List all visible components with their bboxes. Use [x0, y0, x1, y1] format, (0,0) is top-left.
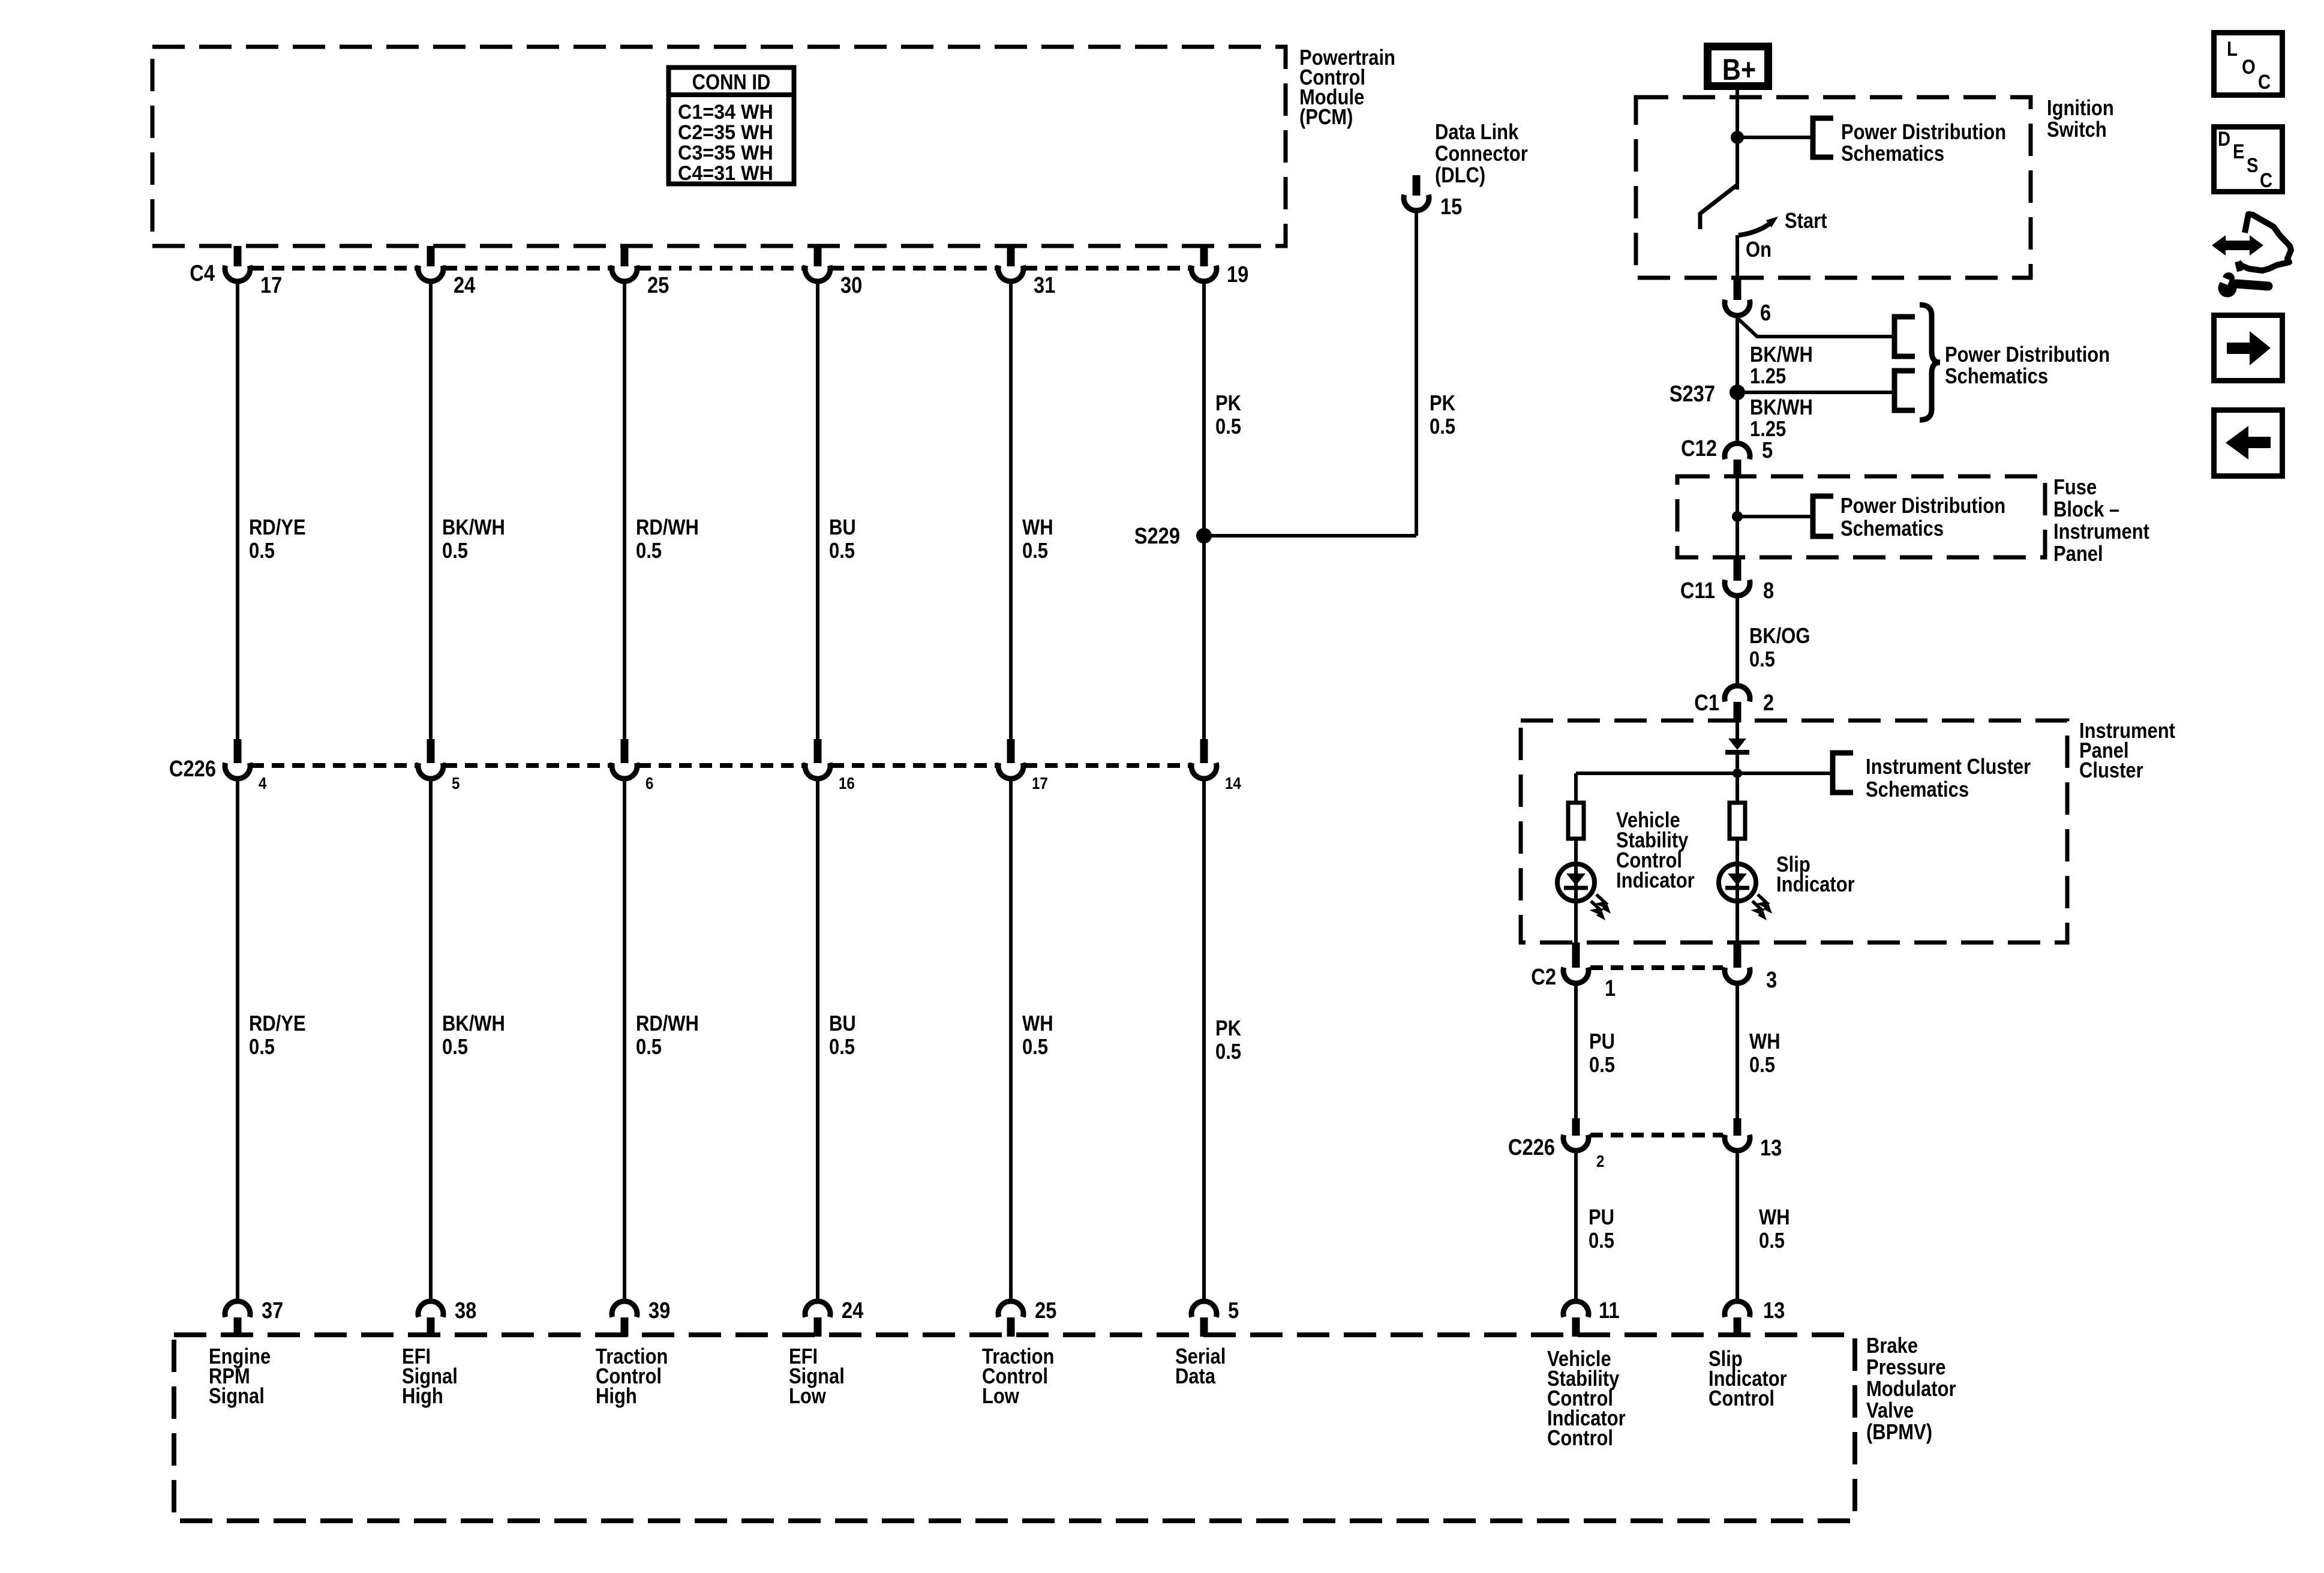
- reference bracket power distribution 2: [1894, 371, 1915, 410]
- svg-text:(DLC): (DLC): [1435, 164, 1485, 188]
- svg-text:24: 24: [842, 1298, 864, 1323]
- C4 pin 30 stub: [814, 246, 822, 266]
- C11 pin 8 stub: [1734, 557, 1742, 581]
- wire B+ to junction: [1736, 90, 1739, 137]
- C226 connector dotted line: [638, 763, 804, 768]
- svg-text:Low: Low: [982, 1385, 1020, 1409]
- C4 connector dotted line: [1025, 266, 1190, 271]
- icon LOC box: [2214, 33, 2283, 95]
- junction fuse block: [1732, 511, 1743, 522]
- C226 connector arc pin 4: [225, 763, 250, 779]
- Start position arc arrow: [1739, 221, 1772, 235]
- C226 connector arc pin 16: [805, 763, 830, 779]
- svg-text:Signal: Signal: [209, 1385, 265, 1409]
- BPMV pin 5 stub: [1200, 1317, 1208, 1337]
- icon diagnostic (arrows and wrench): [2212, 214, 2291, 298]
- svg-text:13: 13: [1763, 1298, 1785, 1323]
- icon back arrow box: [2214, 410, 2283, 476]
- Fuse Block - Instrument Panel box: [1677, 476, 2045, 557]
- C4 pin 31 stub: [1007, 246, 1015, 266]
- svg-text:D: D: [2218, 127, 2230, 151]
- svg-text:0.5: 0.5: [1589, 1053, 1615, 1077]
- BPMV pin 13 stub: [1734, 1317, 1742, 1337]
- connector C11 arc pin 8: [1725, 580, 1750, 596]
- svg-text:Schematics: Schematics: [1841, 142, 1944, 166]
- ignition switch blade: [1700, 185, 1737, 214]
- svg-text:Fuse: Fuse: [2053, 476, 2097, 500]
- BPMV connector arc pin 39: [612, 1301, 637, 1317]
- svg-text:PU: PU: [1589, 1030, 1615, 1054]
- svg-text:25: 25: [1035, 1298, 1056, 1323]
- C226 pin 17 stub: [1007, 739, 1015, 763]
- svg-text:Valve: Valve: [1866, 1399, 1914, 1423]
- C226 pin 6 stub: [621, 739, 629, 763]
- C4 connector dotted line: [445, 266, 611, 271]
- junction cluster: [1733, 769, 1742, 778]
- reference bracket power distribution (ignition): [1813, 118, 1833, 157]
- svg-text:Schematics: Schematics: [1840, 517, 1944, 541]
- svg-text:0.5: 0.5: [636, 539, 662, 563]
- svg-text:RD/WH: RD/WH: [636, 1012, 699, 1036]
- svg-text:0.5: 0.5: [1430, 415, 1455, 439]
- wire slip LED to cluster edge: [1736, 901, 1739, 942]
- svg-text:Block –: Block –: [2053, 498, 2119, 522]
- C4 connector arc pin 19: [1191, 266, 1217, 281]
- svg-text:S: S: [2247, 154, 2258, 177]
- BPMV pin 37 stub: [234, 1317, 242, 1337]
- reference bracket instrument cluster: [1833, 753, 1853, 792]
- wire PK 0.5 upper segment: [1202, 284, 1206, 536]
- svg-text:Cluster: Cluster: [2079, 759, 2143, 783]
- wire to slip resistor: [1736, 773, 1739, 801]
- svg-text:PK: PK: [1215, 1017, 1241, 1041]
- svg-text:Power Distribution: Power Distribution: [1945, 343, 2110, 367]
- svg-text:0.5: 0.5: [1749, 1053, 1775, 1077]
- wire WH 0.5 upper: [1736, 986, 1739, 1118]
- svg-text:RD/WH: RD/WH: [636, 516, 699, 540]
- C226 pin 13 stub: [1734, 1118, 1742, 1136]
- DLC connector arc pin 15: [1404, 195, 1429, 211]
- svg-text:RD/YE: RD/YE: [249, 516, 306, 540]
- svg-text:WH: WH: [1759, 1206, 1790, 1230]
- svg-text:Switch: Switch: [2047, 118, 2107, 142]
- connector C2 arc pin 3: [1725, 968, 1750, 983]
- C4 connector dotted line: [638, 266, 804, 271]
- junction ignition feed: [1731, 131, 1744, 144]
- svg-text:Power Distribution: Power Distribution: [1841, 121, 2006, 145]
- wire WH 0.5 lower segment: [1009, 781, 1013, 1299]
- C226 pin 4 stub: [234, 739, 242, 763]
- Instrument Panel Cluster box: [1521, 721, 2067, 942]
- svg-text:0.5: 0.5: [1759, 1229, 1785, 1253]
- svg-text:High: High: [596, 1385, 637, 1409]
- svg-text:31: 31: [1034, 272, 1055, 298]
- wire diode to junction: [1736, 750, 1739, 773]
- svg-text:(PCM): (PCM): [1299, 106, 1353, 130]
- svg-text:5: 5: [1762, 437, 1773, 463]
- wire branch to power distribution: [1737, 136, 1813, 139]
- svg-text:13: 13: [1760, 1135, 1782, 1161]
- svg-text:15: 15: [1440, 194, 1462, 220]
- wire BK/OG 0.5: [1736, 598, 1739, 683]
- C4 connector arc pin 24: [418, 266, 443, 281]
- brace power distribution schematics: [1920, 305, 1940, 420]
- splice S229: [1196, 528, 1212, 544]
- svg-text:C: C: [2258, 70, 2271, 94]
- svg-text:O: O: [2242, 55, 2256, 79]
- C226 connector arc pin 17: [998, 763, 1023, 779]
- wire RD/YE 0.5 lower segment: [236, 781, 239, 1299]
- wire PK 0.5 below S229: [1202, 536, 1206, 739]
- C4 connector arc pin 25: [612, 266, 637, 281]
- BPMV connector arc pin 24: [805, 1301, 830, 1317]
- svg-text:WH: WH: [1749, 1030, 1780, 1054]
- svg-text:BU: BU: [829, 516, 856, 540]
- svg-text:CONN ID: CONN ID: [692, 71, 771, 95]
- svg-text:4: 4: [259, 773, 267, 792]
- svg-text:BU: BU: [829, 1012, 856, 1036]
- svg-text:Control: Control: [1547, 1427, 1613, 1451]
- svg-text:L: L: [2227, 37, 2238, 61]
- wire BK/WH 1.25 upper: [1736, 318, 1739, 392]
- svg-text:39: 39: [648, 1298, 670, 1323]
- svg-text:25: 25: [647, 272, 669, 298]
- svg-text:Schematics: Schematics: [1866, 778, 1969, 802]
- svg-text:On: On: [1746, 238, 1771, 262]
- svg-text:0.5: 0.5: [249, 1035, 275, 1059]
- wire junction to switch pivot: [1736, 137, 1739, 190]
- svg-text:PK: PK: [1430, 392, 1455, 416]
- svg-text:Instrument: Instrument: [2053, 520, 2149, 544]
- svg-text:BK/WH: BK/WH: [442, 516, 505, 540]
- BPMV pin 25 stub: [1007, 1317, 1015, 1337]
- C226 pin 14 stub: [1200, 739, 1208, 763]
- svg-text:Instrument Cluster: Instrument Cluster: [1866, 755, 2031, 779]
- C4 pin 19 stub: [1200, 246, 1208, 266]
- connector C2 arc pin 1: [1563, 968, 1589, 983]
- diode cluster feed: [1728, 739, 1746, 750]
- C2 pin 1 stub: [1572, 942, 1580, 968]
- BPMV connector arc pin 5: [1191, 1301, 1217, 1317]
- svg-text:BK/WH: BK/WH: [1750, 343, 1813, 367]
- svg-text:E: E: [2233, 140, 2244, 163]
- svg-text:5: 5: [452, 773, 460, 792]
- C4 connector arc pin 31: [998, 266, 1023, 281]
- wire branch fuse block: [1737, 515, 1813, 518]
- svg-text:2: 2: [1596, 1151, 1604, 1170]
- C4 connector dotted line: [831, 266, 997, 271]
- BPMV pin 11 stub: [1572, 1317, 1580, 1337]
- svg-text:C4: C4: [190, 260, 215, 286]
- svg-text:C12: C12: [1681, 436, 1717, 461]
- svg-text:C1=34 WH: C1=34 WH: [678, 101, 773, 124]
- svg-text:0.5: 0.5: [1022, 1035, 1048, 1059]
- svg-text:30: 30: [840, 272, 862, 298]
- svg-text:Data Link: Data Link: [1435, 121, 1519, 145]
- reference bracket power distribution (fuse): [1813, 496, 1833, 536]
- svg-text:C2: C2: [1531, 964, 1556, 990]
- svg-text:Ignition: Ignition: [2047, 97, 2114, 121]
- svg-text:0.5: 0.5: [1215, 415, 1241, 439]
- ignition pin 6 stub: [1734, 278, 1742, 300]
- svg-text:C3=35 WH: C3=35 WH: [678, 142, 773, 164]
- svg-text:C2=35 WH: C2=35 WH: [678, 121, 773, 144]
- svg-text:Connector: Connector: [1435, 142, 1528, 166]
- svg-text:0.5: 0.5: [249, 539, 275, 563]
- C226 pin 16 stub: [814, 739, 822, 763]
- wire VSC LED to cluster edge: [1574, 901, 1578, 942]
- C226 connector arc pin 14: [1191, 763, 1217, 779]
- C4 connector arc pin 17: [225, 266, 250, 281]
- svg-text:Indicator: Indicator: [1616, 869, 1695, 893]
- svg-text:PK: PK: [1215, 392, 1241, 416]
- svg-text:C: C: [2260, 169, 2272, 192]
- svg-text:C226: C226: [169, 756, 216, 782]
- wire diagonal branch from pin 6: [1737, 318, 1893, 337]
- CONN ID table: [669, 68, 794, 184]
- LED Vehicle Stability Control Indicator: [1557, 864, 1595, 901]
- svg-text:6: 6: [1760, 300, 1771, 326]
- wire PK 0.5 lower segment: [1202, 781, 1206, 1299]
- Ignition Switch box: [1636, 97, 2031, 278]
- svg-text:C1: C1: [1694, 690, 1719, 716]
- B+ battery feed box: [1708, 47, 1768, 86]
- svg-text:RD/YE: RD/YE: [249, 1012, 306, 1036]
- svg-text:Panel: Panel: [2053, 542, 2103, 566]
- svg-text:C11: C11: [1680, 578, 1715, 604]
- svg-text:Low: Low: [789, 1385, 827, 1409]
- C4 connector arc pin 30: [805, 266, 830, 281]
- svg-text:17: 17: [1032, 773, 1048, 792]
- svg-text:0.5: 0.5: [1215, 1040, 1241, 1064]
- svg-text:6: 6: [645, 773, 653, 792]
- icon DESC box: [2214, 127, 2283, 192]
- svg-text:Start: Start: [1785, 209, 1827, 233]
- BPMV connector arc pin 25: [998, 1301, 1023, 1317]
- resistor Slip Indicator: [1730, 803, 1745, 839]
- svg-text:3: 3: [1766, 967, 1777, 993]
- wire WH 0.5 upper segment: [1009, 284, 1013, 739]
- C1 pin 2 stub: [1734, 702, 1742, 722]
- svg-text:17: 17: [260, 272, 282, 298]
- BPMV box (Brake Pressure Modulator Valve): [174, 1335, 1855, 1521]
- svg-text:0.5: 0.5: [1749, 648, 1775, 672]
- svg-text:0.5: 0.5: [442, 539, 468, 563]
- wire RD/WH 0.5 lower segment: [623, 781, 626, 1299]
- svg-text:(BPMV): (BPMV): [1866, 1421, 1932, 1445]
- svg-text:37: 37: [262, 1298, 283, 1323]
- wire BU 0.5 upper segment: [816, 284, 819, 739]
- svg-text:WH: WH: [1022, 1012, 1053, 1036]
- BPMV connector arc pin 11: [1563, 1301, 1589, 1317]
- svg-text:0.5: 0.5: [829, 1035, 855, 1059]
- wire BK/WH 0.5 upper segment: [429, 284, 433, 739]
- svg-text:Pressure: Pressure: [1866, 1356, 1945, 1380]
- svg-text:0.5: 0.5: [1022, 539, 1048, 563]
- wire cluster horizontal: [1576, 772, 1833, 775]
- svg-text:5: 5: [1228, 1298, 1239, 1323]
- connector C12 arc pin 5: [1725, 443, 1750, 459]
- C2 pin 3 stub: [1734, 942, 1742, 968]
- svg-text:Data: Data: [1175, 1365, 1215, 1389]
- svg-text:Indicator: Indicator: [1776, 873, 1855, 897]
- svg-text:0.5: 0.5: [829, 539, 855, 563]
- wire S229 to DLC horizontal: [1204, 534, 1416, 538]
- BPMV connector arc pin 38: [418, 1301, 443, 1317]
- wire On terminal: [1736, 235, 1739, 278]
- wire inside fuse block: [1736, 476, 1739, 557]
- icon forward arrow box: [2214, 316, 2283, 381]
- connector C226 arc pin 13: [1725, 1135, 1750, 1151]
- svg-text:16: 16: [839, 773, 855, 792]
- C2 connector dotted line: [1590, 965, 1723, 970]
- wire resistor to slip LED: [1736, 840, 1739, 864]
- svg-text:BK/WH: BK/WH: [1750, 396, 1813, 420]
- svg-text:24: 24: [454, 272, 476, 298]
- reference bracket power distribution 1: [1894, 317, 1915, 356]
- BPMV pin 24 stub: [814, 1317, 822, 1337]
- svg-text:BK/WH: BK/WH: [442, 1012, 505, 1036]
- svg-text:Schematics: Schematics: [1945, 365, 2048, 389]
- svg-text:S229: S229: [1134, 523, 1180, 549]
- svg-text:C4=31 WH: C4=31 WH: [678, 162, 773, 185]
- C226 connector arc pin 5: [418, 763, 443, 779]
- BPMV pin 39 stub: [621, 1317, 629, 1337]
- C4 pin 17 stub: [234, 246, 242, 266]
- wire PK 0.5 DLC drop: [1415, 213, 1418, 536]
- wire BK/WH 0.5 lower segment: [429, 781, 433, 1299]
- connector C1 arc pin 2: [1725, 686, 1750, 701]
- svg-text:BK/OG: BK/OG: [1749, 625, 1810, 649]
- C226 connector dotted line: [831, 763, 997, 768]
- svg-text:Modulator: Modulator: [1866, 1377, 1956, 1401]
- wire WH 0.5 lower: [1736, 1153, 1739, 1299]
- C226 right dotted line: [1590, 1133, 1723, 1137]
- C12 pin 5 stub: [1734, 460, 1742, 476]
- BPMV connector arc pin 37: [225, 1301, 250, 1317]
- svg-text:High: High: [402, 1385, 443, 1409]
- svg-text:Brake: Brake: [1866, 1334, 1918, 1358]
- splice S237: [1730, 385, 1745, 400]
- LED Slip Indicator: [1719, 864, 1756, 901]
- svg-text:C226: C226: [1508, 1134, 1555, 1160]
- wire RD/WH 0.5 upper segment: [623, 284, 626, 739]
- C226 connector dotted line: [445, 763, 611, 768]
- C226 pin 2 stub: [1572, 1118, 1580, 1136]
- wire RD/YE 0.5 upper segment: [236, 284, 239, 739]
- wire PU 0.5 upper: [1574, 986, 1578, 1118]
- svg-text:Control: Control: [1709, 1387, 1774, 1411]
- wire to diode: [1736, 722, 1739, 739]
- svg-text:8: 8: [1763, 578, 1774, 604]
- svg-text:0.5: 0.5: [442, 1035, 468, 1059]
- connector C226 arc pin 2: [1563, 1135, 1589, 1151]
- BPMV pin 38 stub: [427, 1317, 435, 1337]
- svg-text:1.25: 1.25: [1750, 365, 1786, 389]
- svg-text:WH: WH: [1022, 516, 1053, 540]
- C4 pin 24 stub: [427, 246, 435, 266]
- connector arc pin 6: [1725, 300, 1750, 316]
- svg-text:0.5: 0.5: [1589, 1229, 1614, 1253]
- C4 pin 25 stub: [621, 246, 629, 266]
- svg-text:19: 19: [1227, 262, 1248, 287]
- svg-text:0.5: 0.5: [636, 1035, 662, 1059]
- wire to VSC resistor: [1574, 773, 1578, 801]
- svg-text:B+: B+: [1722, 53, 1756, 86]
- C226 connector arc pin 6: [612, 763, 637, 779]
- wire BU 0.5 lower segment: [816, 781, 819, 1299]
- C226 connector dotted line: [1025, 763, 1190, 768]
- svg-text:38: 38: [455, 1298, 476, 1323]
- svg-text:PU: PU: [1589, 1206, 1614, 1230]
- wire resistor to VSC LED: [1574, 840, 1578, 864]
- wire BK/WH 1.25 lower: [1736, 392, 1739, 442]
- svg-text:Power Distribution: Power Distribution: [1840, 494, 2005, 518]
- resistor VSC indicator: [1568, 803, 1584, 839]
- DLC pin 15 stub: [1413, 175, 1421, 196]
- svg-text:S237: S237: [1670, 381, 1715, 407]
- wire PU 0.5 lower: [1574, 1153, 1578, 1299]
- wire S237 branch: [1737, 391, 1893, 394]
- BPMV connector arc pin 13: [1725, 1301, 1750, 1317]
- C4 connector dotted line: [251, 266, 417, 271]
- C226 connector dotted line: [251, 763, 417, 768]
- svg-text:2: 2: [1763, 690, 1774, 716]
- svg-text:14: 14: [1225, 773, 1241, 792]
- PCM module box (Powertrain Control Module): [152, 47, 1286, 246]
- svg-text:11: 11: [1599, 1298, 1620, 1323]
- C226 pin 5 stub: [427, 739, 435, 763]
- svg-text:1: 1: [1605, 975, 1616, 1001]
